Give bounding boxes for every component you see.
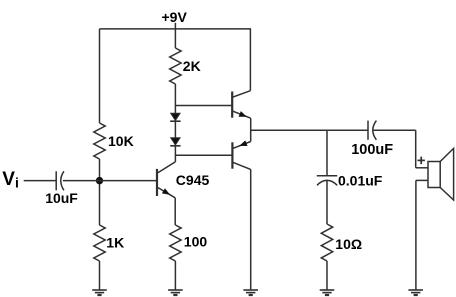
svg-text:100uF: 100uF: [351, 142, 393, 158]
svg-text:Vi: Vi: [2, 169, 19, 191]
svg-text:C945: C945: [176, 172, 210, 188]
svg-text:10Ω: 10Ω: [335, 236, 362, 252]
svg-text:1K: 1K: [106, 235, 124, 251]
svg-text:0.01uF: 0.01uF: [338, 173, 383, 189]
svg-text:10K: 10K: [108, 133, 134, 149]
svg-text:100: 100: [184, 234, 208, 250]
svg-text:+9V: +9V: [162, 9, 188, 25]
svg-text:10uF: 10uF: [45, 190, 78, 206]
svg-text:2K: 2K: [183, 58, 201, 74]
